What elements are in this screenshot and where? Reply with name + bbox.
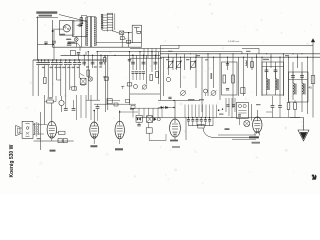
- svg-text:Koenig 530 W: Koenig 530 W: [9, 144, 15, 177]
- svg-text:45: 45: [309, 86, 313, 90]
- svg-text:0,1 MF can: 0,1 MF can: [228, 41, 240, 43]
